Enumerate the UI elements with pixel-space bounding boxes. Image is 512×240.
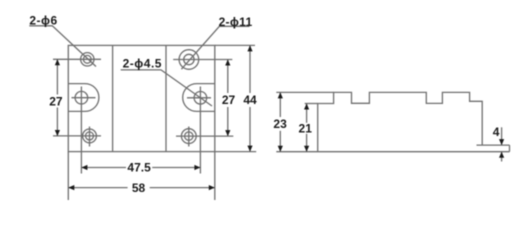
- centerline bottom-left vertical: [89, 127, 91, 147]
- arrow dim58 right: [209, 185, 215, 190]
- arrow dim27R bottom: [225, 130, 230, 136]
- arrow dim58 left: [68, 185, 74, 190]
- dim 27 left line: [56, 59, 58, 94]
- hole top-left outer circle: [81, 53, 94, 66]
- arrow dim4 up: [499, 152, 504, 158]
- arrow dim47.5 right: [194, 165, 200, 170]
- side view body profile: [318, 92, 483, 151]
- arrow dim44 top: [247, 45, 252, 51]
- dim 23 extension top: [276, 91, 333, 93]
- hole middle-right: [194, 92, 207, 105]
- dim 44 extension top: [215, 44, 255, 46]
- svg-text:2-ϕ6: 2-ϕ6: [29, 13, 57, 27]
- dim 21 line: [306, 104, 308, 123]
- svg-text:4: 4: [493, 125, 500, 139]
- dim 27 right line: [227, 60, 229, 94]
- centerline top-right hole: [173, 59, 232, 61]
- side view base right edge: [509, 145, 511, 152]
- leader 2-phi11: [181, 26, 249, 69]
- svg-text:2-ϕ11: 2-ϕ11: [219, 15, 253, 29]
- inner vertical line 1: [112, 45, 114, 151]
- left view outer rectangle: [68, 45, 215, 151]
- svg-text:21: 21: [299, 122, 313, 136]
- hole top-left inner circle: [83, 55, 91, 63]
- arrow dim23 top: [278, 92, 283, 98]
- inner vertical line 2: [165, 45, 167, 151]
- boss middle-left: [68, 84, 99, 112]
- centerline middle-left vertical extended to 47.5 dim: [80, 87, 82, 174]
- arrow dim23 bottom: [278, 146, 283, 152]
- hole top-right outer circle: [179, 50, 199, 70]
- centerline middle-left horizontal: [72, 97, 96, 99]
- svg-text:47.5: 47.5: [127, 161, 151, 175]
- boss middle-right: [183, 84, 215, 112]
- dim 4 line lower: [501, 152, 503, 162]
- hole bottom-left inner circle: [86, 132, 94, 140]
- svg-text:44: 44: [243, 93, 257, 107]
- hole bottom-right outer circle: [181, 129, 196, 144]
- centerline bottom-left horizontal: [53, 135, 101, 137]
- svg-text:2-ϕ4.5: 2-ϕ4.5: [123, 57, 162, 71]
- side view bottom line with left extension: [276, 151, 509, 153]
- hole middle-left: [75, 91, 88, 104]
- svg-text:58: 58: [132, 181, 146, 195]
- centerline middle-right horizontal: [187, 97, 211, 99]
- dim 44 line: [249, 45, 251, 93]
- arrow dim47.5 left: [81, 165, 87, 170]
- svg-text:23: 23: [273, 117, 287, 131]
- dim 58 line: [68, 187, 127, 189]
- centerline top-left hole: [53, 58, 101, 60]
- dim 4 line upper: [501, 127, 503, 145]
- arrow dim27L top: [55, 59, 60, 65]
- side view base plate top: [477, 144, 510, 146]
- leader 2-phi4.5: [121, 70, 212, 106]
- dim 21 extension top: [305, 103, 318, 105]
- arrow dim21 top: [304, 104, 309, 110]
- hole bottom-right inner circle: [185, 132, 193, 140]
- arrow dim21 bottom: [304, 146, 309, 152]
- hole bottom-left outer circle: [83, 129, 97, 143]
- svg-text:27: 27: [222, 93, 236, 107]
- centerline middle-right vertical extended to 47.5 dim: [199, 87, 201, 174]
- dim 58 extension left: [67, 152, 69, 200]
- dim 23 line: [279, 92, 281, 117]
- leader 2-phi6: [29, 26, 96, 67]
- centerline bottom-right vertical: [188, 127, 190, 147]
- arrow dim27R top: [225, 60, 230, 66]
- arrow dim44 bottom: [247, 146, 252, 152]
- dim 44 extension bottom: [215, 151, 256, 153]
- hole top-right inner circle: [184, 54, 194, 64]
- centerline bottom-right horizontal: [176, 135, 233, 137]
- svg-text:27: 27: [49, 95, 63, 109]
- dim 58 extension right: [214, 152, 216, 200]
- arrow dim4 down: [499, 139, 504, 145]
- arrow dim27L bottom: [55, 130, 60, 136]
- dim 47.5 line: [81, 167, 126, 169]
